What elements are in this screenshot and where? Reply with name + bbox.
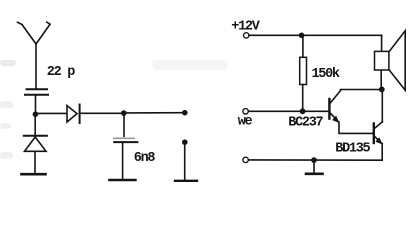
svg-text:150k: 150k xyxy=(312,67,340,82)
svg-text:we: we xyxy=(238,115,253,130)
svg-text:+12V: +12V xyxy=(231,20,260,35)
svg-text:BC237: BC237 xyxy=(288,116,323,131)
svg-text:6n8: 6n8 xyxy=(134,151,156,166)
svg-text:BD135: BD135 xyxy=(335,142,370,157)
svg-text:22 p: 22 p xyxy=(47,65,75,80)
